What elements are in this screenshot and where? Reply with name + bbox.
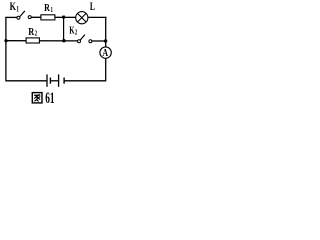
label R1 [44, 3, 53, 15]
label K1 [10, 1, 20, 14]
battery cell1 short plate [49, 78, 51, 84]
svg-text:2: 2 [35, 30, 37, 38]
wire: middle row right portion after K2 [92, 40, 106, 42]
wire: middle row left portion (passes under R2 box) [6, 40, 78, 42]
ammeter A [100, 47, 111, 58]
svg-text:1: 1 [51, 6, 53, 14]
wire: top from K1 right contact to top-right corner (passes under R1 box and lamp) [31, 16, 106, 18]
switch K1 left contact [17, 16, 20, 19]
svg-text:R: R [44, 3, 50, 14]
wire: bottom between battery cells [51, 80, 58, 82]
svg-text:2: 2 [75, 29, 77, 37]
switch K2 right contact [89, 40, 92, 43]
wire: left vertical [5, 17, 7, 82]
node dot on left wire (R2 tap) [4, 39, 7, 42]
battery cell2 long plate [58, 74, 60, 86]
lamp L [76, 12, 88, 24]
svg-text:61: 61 [45, 89, 54, 106]
wire: node X vertical [63, 17, 65, 40]
wire: bottom left of battery [6, 80, 47, 82]
svg-text:R: R [28, 26, 34, 38]
background [0, 0, 117, 109]
label R2 [28, 26, 37, 38]
svg-text:L: L [90, 0, 95, 13]
switch K2 blade [80, 35, 85, 40]
lamp cross stroke 1 [78, 14, 86, 22]
wire: top-left segment to K1 [6, 16, 17, 18]
switch K1 blade [20, 11, 25, 17]
switch K2 left contact [78, 40, 81, 43]
switch K1 right contact [28, 16, 31, 19]
junction dot right (middle row / ammeter branch) [104, 39, 107, 42]
resistor R1 [41, 15, 55, 20]
svg-text:K: K [10, 1, 16, 14]
caption character 图 (hand drawn) [32, 93, 42, 103]
node X junction dot (middle) [62, 39, 65, 42]
wire: bottom right of battery [64, 80, 106, 82]
wire: right vertical (top corner down through ammeter position to bottom wire) [105, 17, 107, 82]
resistor R2 [26, 38, 39, 43]
lamp cross stroke 2 [78, 14, 86, 22]
svg-text:K: K [69, 24, 75, 36]
label K2 [69, 24, 77, 37]
svg-text:A: A [102, 48, 108, 59]
battery cell2 short plate [63, 78, 65, 84]
battery cell1 long plate [46, 74, 48, 86]
node X junction dot (top) [62, 16, 65, 19]
